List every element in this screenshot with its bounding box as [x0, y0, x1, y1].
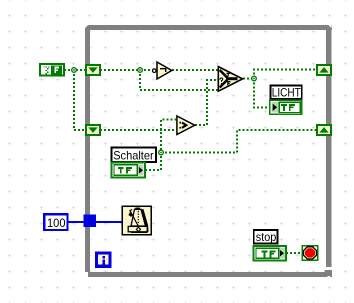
wire: branch to Select f input: [140, 70, 218, 90]
shift register left terminal 1: [86, 65, 100, 75]
junction node J2: [138, 68, 143, 73]
junction node J3: [252, 76, 257, 81]
pendulum weight: [128, 212, 132, 217]
boolean constant F: [40, 64, 64, 76]
LICHT label: [271, 85, 302, 99]
Schalter boolean control terminal: [112, 163, 145, 178]
junction node J4: [159, 150, 164, 155]
metronome dashed scale: [137, 211, 139, 225]
Schalter label: [112, 147, 157, 162]
metronome pendulum arm: [130, 210, 138, 226]
stop label: [254, 230, 278, 244]
svg-text:stop: stop: [256, 230, 277, 244]
wire: Select output to junction: [243, 78, 254, 80]
junction node J1: [72, 68, 77, 73]
base diamond: [136, 227, 140, 231]
LICHT boolean indicator terminal: [270, 100, 302, 114]
numeric constant 100: [44, 214, 67, 230]
blue tunnel on loop border: [84, 215, 97, 228]
wire: shift register 1 to Not gate: [100, 69, 153, 71]
base shadow: [131, 231, 148, 233]
loop condition terminal (stop sign): [302, 246, 317, 261]
svg-text:LICHT: LICHT: [272, 85, 302, 99]
select function U3: [218, 67, 242, 92]
wire: constant to left shift register 1: [64, 70, 317, 254]
wire: branch down to left shift register 2: [74, 70, 86, 130]
wait (ms) node W1: [122, 206, 151, 235]
iteration terminal i: [95, 252, 112, 268]
wire: stop control to condition terminal: [286, 252, 302, 254]
svg-text:Schalter: Schalter: [113, 149, 154, 163]
svg-text:100: 100: [47, 216, 66, 230]
shift register right terminal 2: [317, 125, 331, 135]
wire: Not output to Select t input: [172, 69, 218, 71]
metronome top cap: [135, 208, 140, 210]
metronome body: [131, 209, 146, 226]
wire: 100 to wait node (blue): [67, 221, 122, 223]
wire: junction down to LICHT indicator: [254, 79, 270, 108]
wire: Schalter up to greater top input: [145, 120, 176, 171]
not gate U1: [153, 62, 172, 79]
greater gate U2: [177, 116, 195, 135]
metronome right shadow: [142, 209, 147, 232]
wire: Schalter branch to right shift register 2: [161, 130, 317, 153]
shift register right terminal 1: [317, 65, 331, 75]
shift register left terminal 2: [86, 125, 100, 135]
while loop frame: [85, 25, 332, 278]
metronome base: [128, 226, 147, 231]
wire: greater output up to Select s input: [195, 80, 218, 125]
wire: shift register 2 to greater bottom input: [100, 129, 176, 131]
stop boolean control terminal: [253, 246, 286, 261]
wire: junction up to right shift register 1: [254, 70, 317, 79]
